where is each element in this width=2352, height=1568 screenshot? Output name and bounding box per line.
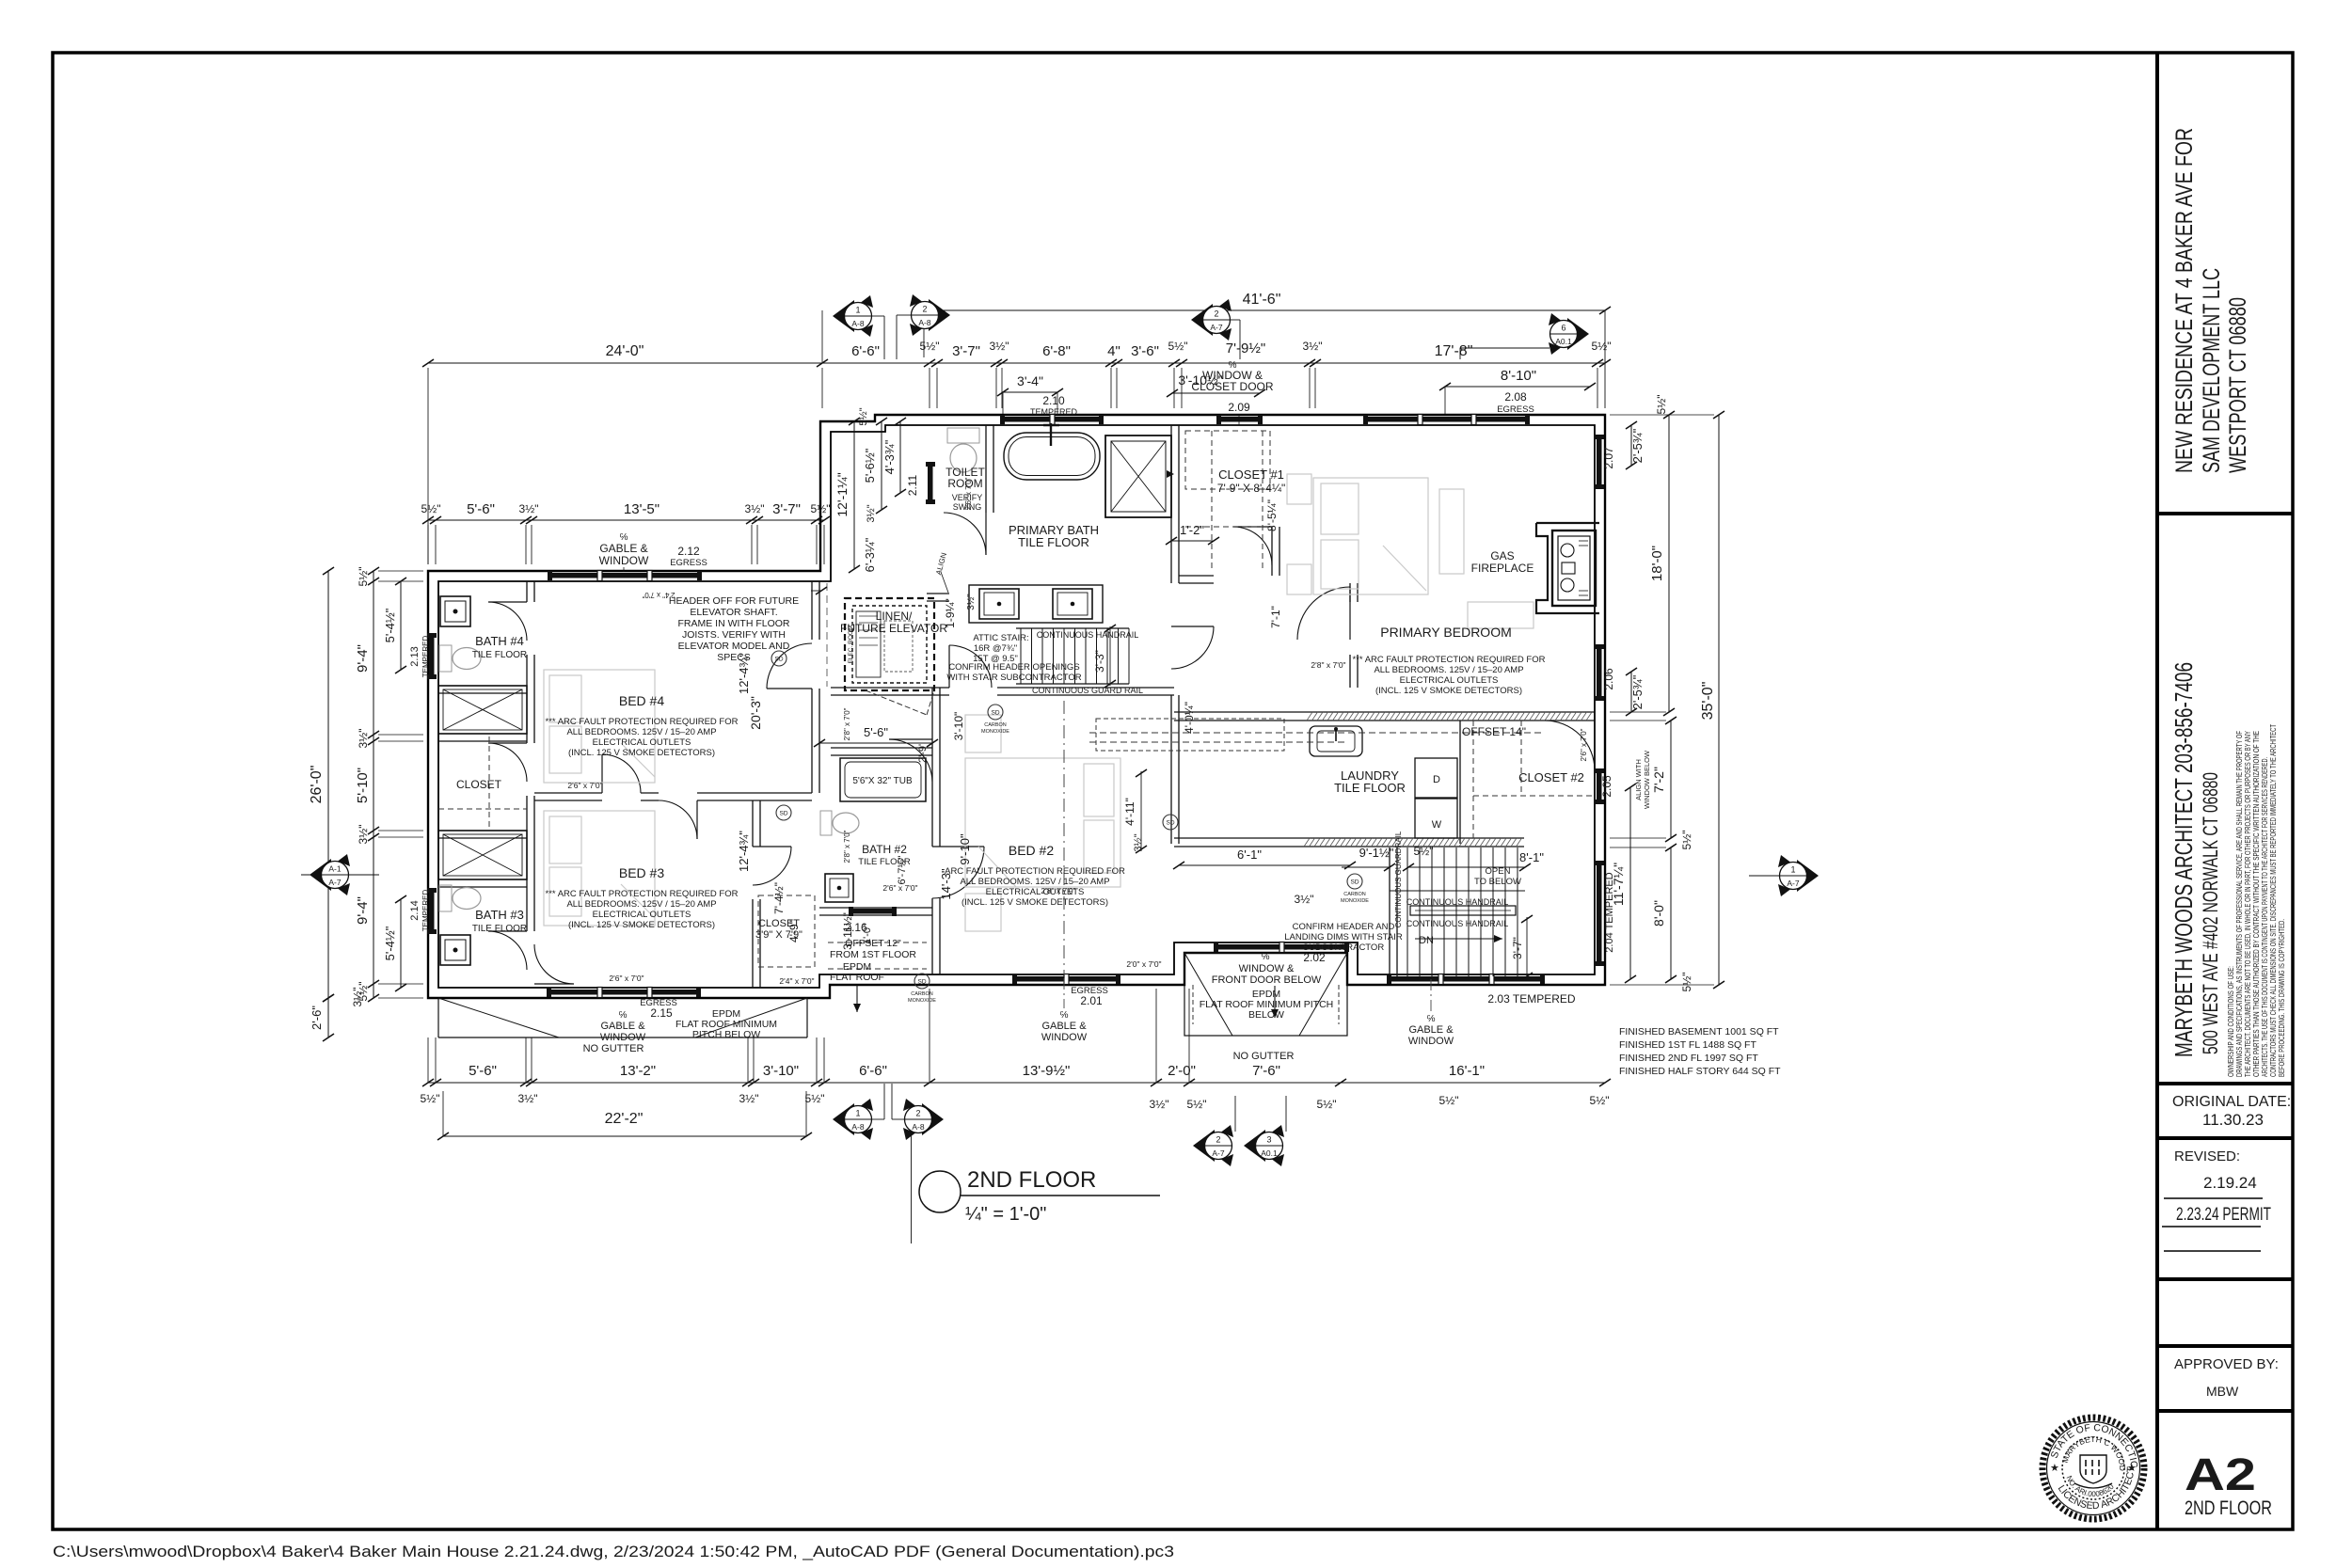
svg-text:ELECTRICAL OUTLETS: ELECTRICAL OUTLETS	[593, 910, 691, 920]
primary bedroom west wall	[1349, 583, 1351, 602]
svg-text:2.10: 2.10	[1042, 394, 1065, 407]
svg-text:TILE FLOOR: TILE FLOOR	[472, 924, 527, 934]
gable centerline bottom-right	[1430, 979, 1432, 1012]
svg-text:3½": 3½"	[1133, 833, 1144, 851]
svg-text:12'-4¾": 12'-4¾"	[737, 831, 751, 872]
svg-text:A2: A2	[2185, 1450, 2256, 1500]
svg-text:THE ARCHITECT. DOCUMENTS ARE: THE ARCHITECT. DOCUMENTS ARE NOT TO BE U…	[2244, 731, 2252, 1077]
svg-text:ALL BEDROOMS. 125V / 15–20 AMP: ALL BEDROOMS. 125V / 15–20 AMP	[566, 727, 716, 737]
svg-text:EGRESS: EGRESS	[670, 558, 707, 568]
svg-text:5½": 5½"	[858, 407, 869, 425]
hall wall stub at closet #1	[1271, 527, 1273, 576]
wall between bed #4 and bed #3	[534, 792, 602, 794]
svg-text:3½": 3½"	[990, 340, 1009, 353]
svg-text:CARBON: CARBON	[1343, 892, 1366, 897]
svg-text:TEMPERED: TEMPERED	[421, 890, 430, 932]
svg-text:MONOXIDE: MONOXIDE	[981, 729, 1009, 735]
svg-text:*** ARC FAULT PROTECTION REQUI: *** ARC FAULT PROTECTION REQUIRED FOR	[546, 889, 739, 899]
stair open line	[1390, 890, 1525, 892]
door closet (left wing)	[488, 742, 527, 744]
washer box	[1415, 799, 1457, 838]
svg-text:HEADER OFF FOR FUTURE: HEADER OFF FOR FUTURE	[669, 595, 799, 607]
svg-text:6'-6": 6'-6"	[851, 343, 880, 359]
dim 2'-5 3/4 upper	[1630, 425, 1632, 466]
wall bath #4 / shower	[438, 685, 527, 687]
project title vertical text	[2171, 128, 2251, 473]
dashed align line	[826, 583, 828, 687]
svg-text:2.03 TEMPERED: 2.03 TEMPERED	[1487, 992, 1575, 1006]
svg-text:FLAT ROOF: FLAT ROOF	[830, 972, 884, 983]
svg-text:8'-5¼": 8'-5¼"	[1265, 499, 1279, 531]
window 2.03 tempered (bottom right wall)	[1390, 976, 1542, 982]
svg-text:3½": 3½"	[1295, 893, 1314, 906]
svg-text:A-7: A-7	[1787, 879, 1800, 888]
svg-text:1: 1	[855, 306, 860, 315]
exterior wall inner face	[438, 425, 1595, 988]
svg-text:PRIMARY BEDROOM: PRIMARY BEDROOM	[1380, 625, 1512, 640]
sd carbon monoxide bottom	[914, 974, 930, 989]
svg-text:3'-4": 3'-4"	[1017, 373, 1043, 388]
svg-text:BEFORE PROCEEDING. THIS DRAWIN: BEFORE PROCEEDING. THIS DRAWING IS COPYR…	[2278, 919, 2286, 1077]
svg-text:2'8" x 7'0": 2'8" x 7'0"	[1041, 886, 1075, 895]
door bed #4	[601, 754, 603, 793]
svg-text:2.09: 2.09	[1228, 401, 1250, 414]
svg-text:GABLE &: GABLE &	[1041, 1021, 1087, 1032]
svg-text:5½": 5½"	[1439, 1094, 1459, 1107]
svg-text:GABLE &: GABLE &	[599, 542, 647, 555]
svg-text:5'-4½": 5'-4½"	[383, 608, 397, 642]
svg-text:℅: ℅	[1427, 1014, 1436, 1024]
bath #4 sink	[440, 596, 470, 626]
svg-text:ATTIC STAIR:: ATTIC STAIR:	[973, 633, 1028, 643]
svg-text:APPROVED BY:: APPROVED BY:	[2174, 1356, 2279, 1372]
svg-text:JOISTS. VERIFY WITH: JOISTS. VERIFY WITH	[682, 629, 786, 641]
svg-text:5½": 5½"	[811, 502, 831, 515]
svg-text:2.14: 2.14	[409, 900, 421, 920]
svg-text:3½": 3½"	[518, 1092, 538, 1105]
dim 41'-6 overall top	[924, 309, 1605, 311]
svg-text:*** ARC FAULT PROTECTION REQUI: *** ARC FAULT PROTECTION REQUIRED FOR	[546, 717, 739, 727]
svg-text:EGRESS: EGRESS	[1497, 404, 1534, 415]
svg-text:BATH #3: BATH #3	[475, 908, 524, 922]
svg-text:DRAWINGS AND SPECIFICATIONS, A: DRAWINGS AND SPECIFICATIONS, AS INSTRUME…	[2235, 731, 2244, 1077]
svg-text:5'-6": 5'-6"	[864, 725, 888, 739]
svg-text:GABLE &: GABLE &	[600, 1021, 645, 1032]
sd carbon monoxide mid	[988, 705, 1003, 720]
svg-text:CONTINUOUS HANDRAIL: CONTINUOUS HANDRAIL	[1406, 919, 1509, 928]
svg-text:3½": 3½"	[357, 729, 370, 749]
dim 35'-0 right	[1718, 415, 1720, 985]
door bed #2	[932, 846, 984, 847]
elevator equipment	[856, 611, 881, 677]
left dim chain x397	[373, 571, 374, 998]
section marker A-1/A-7 left	[310, 859, 331, 891]
smoke detector hall left 2	[776, 805, 791, 820]
svg-text:2'8" x 7'0": 2'8" x 7'0"	[843, 830, 851, 863]
dim 22'-2	[443, 1135, 806, 1137]
svg-text:5½": 5½"	[1187, 1098, 1207, 1111]
svg-text:A-1: A-1	[328, 864, 342, 874]
door toilet room	[985, 513, 987, 555]
svg-text:16R @7¾": 16R @7¾"	[974, 643, 1017, 654]
svg-text:¼" = 1'-0": ¼" = 1'-0"	[965, 1204, 1046, 1225]
svg-text:2.07: 2.07	[1602, 447, 1615, 469]
window 2.08 egress (primary bedroom top wall)	[1366, 417, 1527, 422]
door closet #1	[1233, 526, 1272, 528]
svg-text:7'-1": 7'-1"	[1269, 606, 1282, 628]
svg-text:ELEVATOR MODEL AND: ELEVATOR MODEL AND	[678, 641, 790, 652]
svg-text:24'-0": 24'-0"	[606, 343, 644, 359]
left chain witness	[378, 570, 423, 572]
svg-text:BED #3: BED #3	[619, 865, 664, 880]
svg-text:8'-0": 8'-0"	[1651, 900, 1666, 927]
svg-text:℅: ℅	[1060, 1010, 1069, 1021]
title block divider 3	[2157, 1136, 2293, 1140]
svg-text:11.30.23: 11.30.23	[2202, 1111, 2264, 1129]
svg-text:3½": 3½"	[1150, 1098, 1169, 1111]
svg-text:*** ARC FAULT PROTECTION REQUI: *** ARC FAULT PROTECTION REQUIRED FOR	[1353, 655, 1546, 665]
svg-text:BED #2: BED #2	[1009, 843, 1054, 858]
stair dim line	[1342, 866, 1390, 868]
svg-text:(INCL. 125 V SMOKE DETECTORS): (INCL. 125 V SMOKE DETECTORS)	[568, 748, 715, 758]
porch epdm arrow	[1274, 986, 1276, 1018]
wall shower / closet	[438, 733, 527, 735]
svg-text:5½": 5½"	[357, 567, 370, 587]
window 2.15 egress (left wing bottom wall)	[549, 990, 698, 995]
section marker 1/A-8 top	[833, 300, 854, 332]
title block outer	[2155, 53, 2159, 1529]
dim 2'-6 roof	[327, 998, 329, 1037]
section marker 2/A-8 bottom	[922, 1103, 944, 1135]
svg-text:TILE FLOOR: TILE FLOOR	[1018, 535, 1089, 549]
svg-text:OWNERSHIP AND CONDITIONS OF US: OWNERSHIP AND CONDITIONS OF USE:	[2227, 966, 2235, 1077]
svg-text:PITCH BELOW: PITCH BELOW	[692, 1029, 760, 1040]
bed #2 furniture	[965, 758, 1120, 887]
svg-text:CONTINUOUS GUARDRAIL: CONTINUOUS GUARDRAIL	[1394, 831, 1403, 927]
hatched wall above stairs	[1174, 837, 1304, 839]
svg-text:WINDOW: WINDOW	[1041, 1032, 1088, 1043]
svg-text:8'-1": 8'-1"	[1519, 850, 1544, 864]
vanity sink 2	[1053, 589, 1092, 619]
right witness lines	[1610, 414, 1714, 416]
vanity sink 1	[979, 589, 1019, 619]
section marker 2/A-7 bottom	[1193, 1130, 1215, 1162]
door hall to stairs	[1171, 626, 1214, 627]
svg-text:5½": 5½"	[920, 340, 940, 353]
svg-text:2.01: 2.01	[1080, 994, 1103, 1007]
svg-text:7'-2": 7'-2"	[1651, 767, 1666, 793]
svg-text:5½": 5½"	[421, 502, 441, 515]
svg-text:5'-10": 5'-10"	[355, 768, 371, 803]
svg-text:2'6" x 7'0": 2'6" x 7'0"	[964, 477, 973, 510]
svg-text:5'-6½": 5'-6½"	[863, 448, 877, 483]
sd carbon monoxide stairs	[1347, 874, 1362, 889]
svg-text:2'4" x 7'0": 2'4" x 7'0"	[642, 591, 675, 599]
window 2.06 (right wall)	[1597, 647, 1602, 698]
stair dn arrow	[1415, 938, 1502, 940]
dim 7'-2 right	[1670, 721, 1672, 838]
svg-text:OTHER PARTIES THAN THOSE A: OTHER PARTIES THAN THOSE AUTHORIZED BY C…	[2252, 731, 2261, 1077]
elevator door swing dashed	[866, 690, 927, 715]
svg-text:CONTINUOUS GUARD RAIL: CONTINUOUS GUARD RAIL	[1032, 686, 1143, 695]
primary bath south wall / corridor	[831, 687, 949, 689]
section marker 2/A-7 top	[1191, 304, 1213, 336]
svg-text:5'-6": 5'-6"	[467, 501, 495, 517]
svg-text:2'-5¾": 2'-5¾"	[1630, 428, 1645, 463]
svg-text:A-8: A-8	[912, 1122, 925, 1132]
svg-text:TEMPERED: TEMPERED	[1030, 407, 1078, 417]
dim 3'-10 1/2	[1172, 392, 1260, 394]
svg-text:CARBON: CARBON	[911, 991, 933, 997]
svg-text:35'-0": 35'-0"	[1700, 682, 1716, 721]
svg-text:26'-0": 26'-0"	[309, 766, 325, 804]
svg-text:SUBCONTRACTOR: SUBCONTRACTOR	[1303, 942, 1385, 953]
laundry east wall	[1459, 721, 1461, 844]
svg-text:3'-10": 3'-10"	[763, 1063, 799, 1079]
svg-text:ALL BEDROOMS. 125V / 15–20 AMP: ALL BEDROOMS. 125V / 15–20 AMP	[960, 877, 1109, 887]
svg-text:2: 2	[922, 305, 927, 314]
svg-text:2ND FLOOR: 2ND FLOOR	[967, 1167, 1096, 1193]
svg-text:13'-5": 13'-5"	[624, 501, 660, 517]
svg-text:(INCL. 125 V SMOKE DETECTORS): (INCL. 125 V SMOKE DETECTORS)	[961, 897, 1108, 908]
svg-text:4": 4"	[1107, 343, 1120, 359]
svg-text:2.11: 2.11	[906, 474, 919, 496]
svg-text:NO GUTTER: NO GUTTER	[583, 1043, 644, 1054]
dim 8'-0 right	[1670, 847, 1672, 979]
door bath #2	[889, 738, 932, 740]
bath #2 north wall	[831, 747, 932, 749]
svg-text:3'-3": 3'-3"	[1093, 650, 1106, 673]
svg-text:5½": 5½"	[1168, 340, 1188, 353]
svg-text:6'-1": 6'-1"	[1237, 847, 1262, 862]
closet #1 south wall	[1179, 575, 1214, 577]
dim chain top y386	[428, 362, 1605, 364]
bath #4 shower	[438, 686, 527, 734]
svg-text:WINDOW &: WINDOW &	[1239, 963, 1295, 974]
svg-text:NEW RESIDENCE AT 4 BAKER AVE F: NEW RESIDENCE AT 4 BAKER AVE FOR	[2171, 128, 2198, 473]
svg-text:3'-7": 3'-7"	[1511, 937, 1524, 959]
svg-text:TO BELOW: TO BELOW	[1474, 877, 1521, 887]
bath #4 toilet	[439, 645, 452, 672]
svg-text:2.08: 2.08	[1504, 390, 1527, 404]
svg-text:OFFSET 14": OFFSET 14"	[1462, 725, 1526, 738]
svg-text:3'-7": 3'-7"	[952, 343, 980, 359]
laundry sink	[1310, 726, 1362, 756]
svg-text:DN: DN	[1419, 935, 1434, 946]
legal fine print vertical	[2227, 724, 2286, 1077]
svg-text:1'-2": 1'-2"	[1180, 523, 1204, 537]
wall closet / shower #3	[438, 830, 527, 832]
svg-text:2.04 TEMPERED: 2.04 TEMPERED	[1604, 872, 1615, 952]
svg-text:WINDOW: WINDOW	[1408, 1036, 1454, 1047]
toilet room east wall	[985, 425, 987, 513]
svg-text:2'6" x 7'0": 2'6" x 7'0"	[882, 883, 917, 893]
window 2.10 tempered (primary bath top wall)	[1003, 417, 1101, 422]
svg-text:CLOSET #2: CLOSET #2	[1518, 770, 1584, 784]
svg-text:CONTINUOUS HANDRAIL: CONTINUOUS HANDRAIL	[1406, 897, 1509, 907]
svg-text:5½": 5½"	[1655, 395, 1668, 415]
smoke detector hall left	[771, 651, 787, 666]
svg-text:2.06: 2.06	[1602, 668, 1615, 690]
wall between baths and beds (left wing partition)	[526, 581, 528, 602]
svg-text:9'-4": 9'-4"	[355, 644, 371, 673]
left wing roof below	[437, 998, 439, 1037]
svg-text:3: 3	[1266, 1135, 1271, 1145]
svg-text:CARBON: CARBON	[984, 722, 1007, 728]
svg-text:7'-4½": 7'-4½"	[772, 882, 786, 914]
svg-text:★: ★	[2127, 1463, 2137, 1474]
window 2.12 egress (left wing top wall)	[550, 573, 699, 578]
left wing closet dashed shelving	[488, 736, 490, 828]
svg-text:(INCL. 125 V SMOKE DETECTORS): (INCL. 125 V SMOKE DETECTORS)	[1375, 686, 1522, 696]
svg-text:3½": 3½"	[866, 504, 877, 522]
svg-text:20'-3": 20'-3"	[748, 696, 763, 730]
svg-text:MONOXIDE: MONOXIDE	[1341, 898, 1369, 904]
window 2.07 (right wall)	[1597, 437, 1602, 486]
svg-text:℅: ℅	[619, 1010, 628, 1021]
gable centerline bottom-mid	[1063, 978, 1065, 1008]
svg-text:2.12: 2.12	[677, 545, 700, 558]
svg-text:5½": 5½"	[1317, 1098, 1337, 1111]
witness left wing top	[427, 525, 429, 564]
svg-text:5½": 5½"	[1680, 973, 1693, 992]
roof dashed strip below bath2	[828, 942, 927, 943]
svg-text:CLOSET #1: CLOSET #1	[1218, 467, 1284, 482]
elevator shaft dashed box	[845, 598, 934, 690]
svg-text:4'-0¼": 4'-0¼"	[1183, 702, 1196, 734]
svg-text:1: 1	[855, 1109, 860, 1118]
svg-text:500 WEST AVE #402 NORWALK CT: 500 WEST AVE #402 NORWALK CT 06880	[2199, 772, 2222, 1054]
svg-text:4'-3¾": 4'-3¾"	[882, 439, 897, 474]
bed #3 furniture	[544, 811, 655, 926]
svg-text:C:\Users\mwood\Dropbox\4 Baker: C:\Users\mwood\Dropbox\4 Baker\4 Baker M…	[53, 1543, 1174, 1560]
bath #3 shower	[438, 831, 527, 879]
svg-text:FUTURE ELEVATOR: FUTURE ELEVATOR	[840, 622, 947, 635]
svg-text:2'-6": 2'-6"	[310, 1006, 324, 1030]
hatched wall laundry/closet2 north	[1174, 711, 1307, 713]
svg-text:9'-1½": 9'-1½"	[1359, 846, 1394, 860]
svg-text:GAS: GAS	[1490, 549, 1514, 562]
closet #1 dashed shelving	[1185, 431, 1270, 489]
bath #3 toilet	[439, 885, 452, 911]
svg-text:CONFIRM HEADER AND: CONFIRM HEADER AND	[1293, 922, 1395, 932]
svg-text:5½": 5½"	[1680, 831, 1693, 850]
svg-text:2.19.24: 2.19.24	[2203, 1174, 2257, 1192]
window 2.14 tempered (left wall)	[429, 891, 435, 931]
dim 5'-4 1/2 lower	[400, 899, 402, 988]
svg-text:7'-6": 7'-6"	[1252, 1063, 1280, 1079]
svg-text:NO GUTTER: NO GUTTER	[1233, 1051, 1295, 1062]
dim 8'-10	[1445, 386, 1590, 388]
svg-text:MONOXIDE: MONOXIDE	[908, 998, 936, 1004]
svg-text:WITH STAIR SUBCONTRACTOR: WITH STAIR SUBCONTRACTOR	[946, 673, 1081, 683]
door primary bath hall	[948, 645, 950, 688]
wall bed #3 east	[752, 800, 754, 847]
svg-text:FINISHED 2ND FL 1997 SQ FT: FINISHED 2ND FL 1997 SQ FT	[1619, 1053, 1758, 1064]
svg-text:TILE FLOOR: TILE FLOOR	[472, 650, 527, 660]
closet #2 dashed shelving	[1472, 721, 1474, 838]
svg-text:3'-10": 3'-10"	[952, 712, 965, 741]
dim 1'-2 closet1	[1171, 540, 1214, 542]
window 2.11 (toilet room west wall)	[928, 465, 933, 501]
svg-text:5½": 5½"	[1590, 1094, 1610, 1107]
toilet room toilet	[947, 428, 979, 443]
svg-text:6'-7½": 6'-7½"	[897, 855, 908, 884]
svg-text:18'-0": 18'-0"	[1649, 546, 1665, 581]
section marker 6/A0.1	[1567, 318, 1589, 350]
witness bottom	[427, 1037, 429, 1083]
svg-text:2.23.24 PERMIT: 2.23.24 PERMIT	[2176, 1205, 2271, 1225]
dim 2'-5 3/4 mid	[1630, 672, 1632, 712]
svg-text:A-8: A-8	[918, 318, 931, 327]
gas fireplace	[1536, 523, 1599, 613]
window 2.02 (front door wall)	[1216, 944, 1346, 950]
svg-text:2ND FLOOR: 2ND FLOOR	[2185, 1497, 2272, 1519]
svg-text:2'6" x 7'0": 2'6" x 7'0"	[609, 974, 644, 983]
svg-text:A-8: A-8	[851, 1122, 865, 1132]
svg-text:ALIGN WITH: ALIGN WITH	[1634, 759, 1643, 800]
svg-text:CONTINUOUS HANDRAIL: CONTINUOUS HANDRAIL	[1037, 630, 1139, 640]
svg-text:℅: ℅	[1262, 952, 1270, 962]
svg-text:2'-9": 2'-9"	[917, 742, 929, 763]
dryer box	[1415, 758, 1457, 798]
dim 18'-0 right	[1668, 415, 1670, 712]
svg-text:CLOSET DOOR: CLOSET DOOR	[1191, 380, 1273, 393]
svg-text:13'-2": 13'-2"	[620, 1063, 656, 1079]
svg-text:12'-1¼": 12'-1¼"	[834, 472, 850, 516]
svg-text:1: 1	[1790, 865, 1795, 875]
title block divider 2	[2157, 1082, 2293, 1085]
svg-text:WINDOW: WINDOW	[600, 1032, 646, 1043]
svg-text:BATH #4: BATH #4	[475, 634, 524, 648]
title block divider 4	[2157, 1277, 2293, 1281]
svg-text:6'-6": 6'-6"	[859, 1063, 887, 1079]
svg-text:ELECTRICAL OUTLETS: ELECTRICAL OUTLETS	[593, 737, 691, 748]
title block divider 1	[2157, 512, 2293, 515]
svg-text:ORIGINAL DATE:: ORIGINAL DATE:	[2172, 1094, 2291, 1110]
svg-text:(INCL. 125 V SMOKE DETECTORS): (INCL. 125 V SMOKE DETECTORS)	[568, 920, 715, 930]
smoke detector bed2 hall	[1163, 815, 1178, 830]
svg-text:2'6" x 7'0": 2'6" x 7'0"	[1580, 728, 1588, 761]
svg-text:9'-10": 9'-10"	[958, 833, 972, 865]
svg-text:ALL BEDROOMS. 125V / 15–20 AMP: ALL BEDROOMS. 125V / 15–20 AMP	[566, 899, 716, 910]
svg-text:FIREPLACE: FIREPLACE	[1471, 562, 1534, 575]
svg-text:FINISHED HALF STORY 644 SQ FT: FINISHED HALF STORY 644 SQ FT	[1619, 1066, 1781, 1077]
svg-text:2: 2	[1214, 309, 1218, 319]
svg-text:6: 6	[1561, 324, 1565, 333]
svg-text:W: W	[1432, 819, 1442, 831]
svg-text:A-7: A-7	[328, 878, 342, 887]
bed #4 furniture	[544, 670, 655, 783]
primary bed furniture	[1313, 478, 1428, 594]
svg-text:2'-0": 2'-0"	[1168, 1063, 1196, 1079]
svg-text:MARYBETH WOODS ARCHITECT 203-8: MARYBETH WOODS ARCHITECT 203-856-7406	[2169, 662, 2198, 1057]
bath #2 south wall	[819, 907, 932, 909]
toilet room south stub	[927, 593, 949, 594]
bed #2 centerline	[1063, 701, 1065, 974]
svg-text:2.02: 2.02	[1303, 951, 1326, 964]
svg-text:BATH #2: BATH #2	[862, 843, 907, 856]
left wing east wall (bed #4 / hall)	[811, 581, 813, 640]
dim 5'-6 elevator	[819, 742, 932, 744]
svg-text:5'-6": 5'-6"	[469, 1063, 497, 1079]
svg-text:A-8: A-8	[851, 319, 865, 328]
svg-text:5'6"X 32" TUB: 5'6"X 32" TUB	[852, 776, 913, 786]
door bath #4	[488, 601, 527, 603]
CT coat of arms	[2080, 1455, 2106, 1483]
architect info vertical text	[2169, 662, 2222, 1057]
svg-text:2'-5¾": 2'-5¾"	[1630, 674, 1645, 709]
